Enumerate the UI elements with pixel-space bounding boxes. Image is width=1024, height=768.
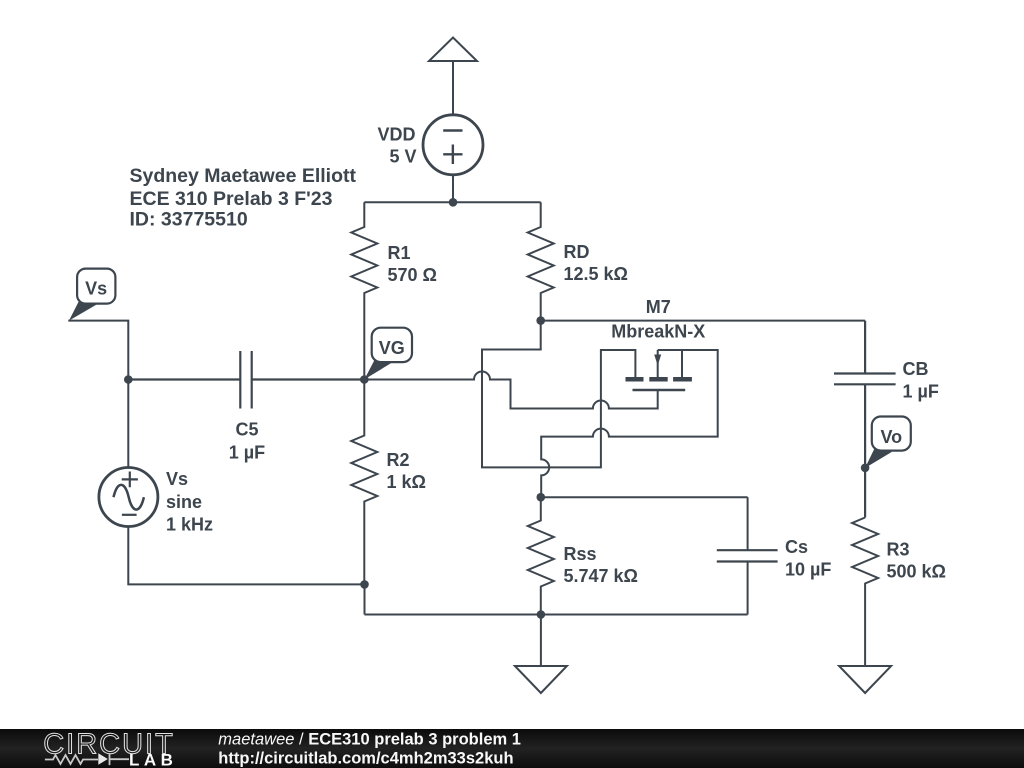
svg-text:5 V: 5 V xyxy=(389,147,416,167)
svg-text:RD: RD xyxy=(564,242,590,262)
svg-text:R1: R1 xyxy=(388,243,411,263)
svg-text:10 µF: 10 µF xyxy=(785,560,831,580)
svg-text:R3: R3 xyxy=(887,540,910,560)
svg-text:ECE 310 Prelab 3 F'23: ECE 310 Prelab 3 F'23 xyxy=(130,188,333,210)
svg-text:Vs: Vs xyxy=(166,469,188,489)
svg-text:VG: VG xyxy=(379,338,405,358)
svg-text:1 µF: 1 µF xyxy=(229,443,265,463)
svg-text:12.5 kΩ: 12.5 kΩ xyxy=(564,264,628,284)
svg-text:500 kΩ: 500 kΩ xyxy=(887,562,946,582)
svg-text:Sydney Maetawee Elliott: Sydney Maetawee Elliott xyxy=(130,165,357,187)
svg-text:sine: sine xyxy=(166,492,202,512)
svg-text:5.747 kΩ: 5.747 kΩ xyxy=(564,566,639,586)
svg-text:1 µF: 1 µF xyxy=(903,382,939,402)
svg-text:Cs: Cs xyxy=(785,537,808,557)
svg-text:1 kHz: 1 kHz xyxy=(166,515,213,535)
svg-text:http://circuitlab.com/c4mh2m33: http://circuitlab.com/c4mh2m33s2kuh xyxy=(218,749,513,767)
svg-text:CB: CB xyxy=(903,359,929,379)
svg-text:MbreakN-X: MbreakN-X xyxy=(611,322,705,342)
svg-text:570 Ω: 570 Ω xyxy=(388,265,437,285)
svg-text:R2: R2 xyxy=(387,450,410,470)
svg-text:C5: C5 xyxy=(235,420,258,440)
svg-text:maetawee / ECE310 prelab 3 pro: maetawee / ECE310 prelab 3 problem 1 xyxy=(218,730,521,748)
svg-text:1 kΩ: 1 kΩ xyxy=(387,472,426,492)
svg-text:VDD: VDD xyxy=(377,125,415,145)
svg-text:Vo: Vo xyxy=(880,427,902,447)
svg-text:Vs: Vs xyxy=(85,279,107,299)
svg-text:ID: 33775510: ID: 33775510 xyxy=(130,209,248,231)
svg-text:M7: M7 xyxy=(646,297,671,317)
svg-text:Rss: Rss xyxy=(564,544,597,564)
svg-text:LAB: LAB xyxy=(129,751,177,768)
